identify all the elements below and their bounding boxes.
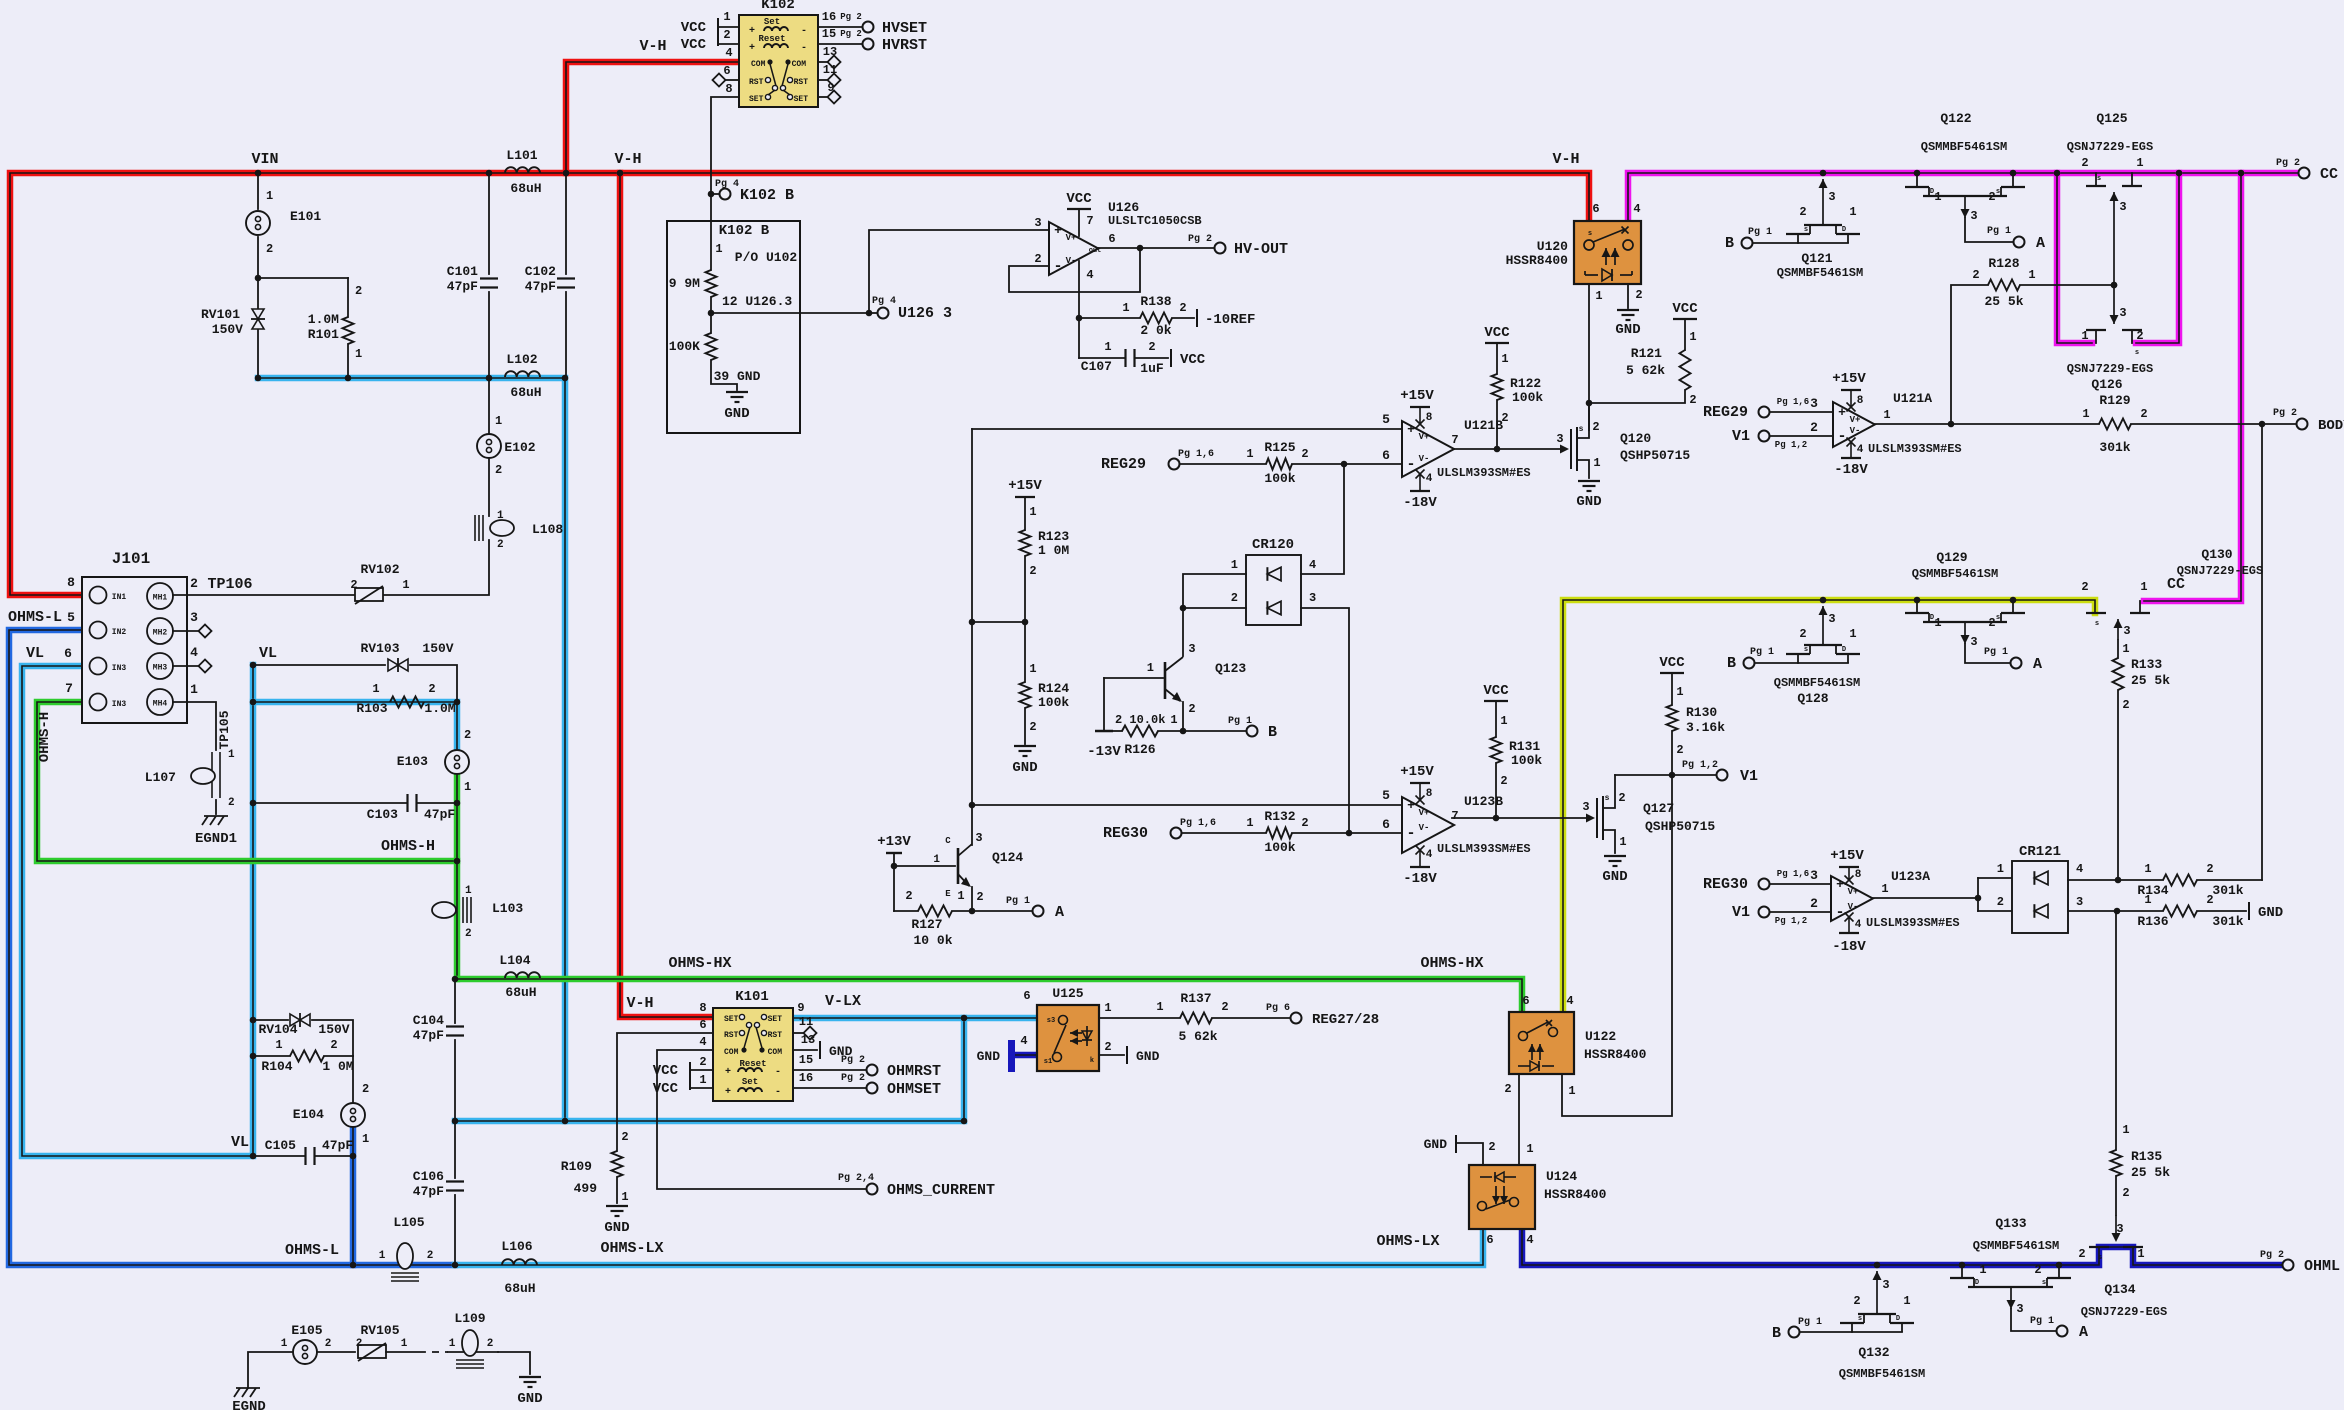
svg-text:-: - — [775, 1067, 781, 1078]
terminal OHML — [2260, 1250, 2340, 1275]
U102 pin12 wire to U126_3 tap — [708, 230, 1049, 322]
svg-text:2: 2 — [362, 1082, 369, 1096]
svg-text:3: 3 — [1810, 868, 1818, 883]
U121B output wire to Q120 gate — [1453, 445, 1569, 454]
svg-text:1: 1 — [2144, 862, 2151, 876]
junction dot V-LX — [562, 1015, 968, 1125]
svg-text:R135: R135 — [2131, 1149, 2162, 1164]
svg-text:2: 2 — [976, 890, 983, 904]
svg-text:REG30: REG30 — [1703, 876, 1748, 893]
svg-text:A: A — [2033, 656, 2042, 673]
svg-text:E102: E102 — [504, 440, 535, 455]
U126 pin4 wire down — [1076, 261, 1094, 358]
svg-text:2: 2 — [1500, 774, 1507, 788]
svg-text:REG29: REG29 — [1101, 456, 1146, 473]
svg-text:RV101: RV101 — [201, 307, 240, 322]
svg-text:Pg 1: Pg 1 — [1228, 716, 1252, 727]
svg-text:1: 1 — [1156, 1000, 1163, 1014]
svg-text:1: 1 — [497, 510, 504, 522]
svg-text:Q133: Q133 — [1995, 1216, 2026, 1231]
svg-text:SET: SET — [794, 95, 809, 104]
svg-text:C107: C107 — [1081, 359, 1112, 374]
svg-text:2: 2 — [356, 1338, 363, 1350]
Q120 source ground — [1576, 481, 1601, 510]
svg-text:COM: COM — [724, 1048, 739, 1057]
svg-text:4: 4 — [1020, 1034, 1027, 1048]
svg-text:1: 1 — [1526, 1142, 1533, 1156]
svg-text:5: 5 — [1382, 788, 1390, 803]
svg-text:Pg 1: Pg 1 — [1748, 227, 1772, 238]
U126 output to HV-OUT — [1098, 232, 1288, 258]
svg-text:VCC: VCC — [681, 37, 707, 53]
svg-text:-10REF: -10REF — [1205, 312, 1255, 328]
svg-text:VIN: VIN — [251, 151, 278, 168]
svg-text:1: 1 — [1501, 352, 1508, 366]
svg-text:6: 6 — [1382, 448, 1390, 463]
JFET Q132 QSMMBF5461SM — [1839, 1262, 1925, 1381]
svg-text:1: 1 — [1997, 862, 2004, 876]
wire V1 node — [1615, 760, 1758, 785]
svg-text:Pg 4: Pg 4 — [715, 179, 739, 190]
svg-text:U121B: U121B — [1464, 418, 1503, 433]
svg-text:SET: SET — [724, 1015, 739, 1024]
svg-text:301k: 301k — [2212, 883, 2243, 898]
svg-text:1.0M: 1.0M — [424, 701, 455, 716]
diode pack CR121 — [1997, 844, 2083, 933]
svg-text:1 0M: 1 0M — [322, 1059, 353, 1074]
svg-text:R132: R132 — [1264, 809, 1295, 824]
transistor Q124 — [933, 831, 1023, 911]
svg-text:B: B — [1727, 655, 1736, 672]
op-amp U121B ULSLM393SM#ES — [972, 388, 1531, 511]
svg-text:3: 3 — [1970, 209, 1977, 223]
K101 pin4 wire to OHMS_CURRENT — [657, 1050, 995, 1199]
svg-text:2: 2 — [1104, 1040, 1111, 1054]
svg-text:47pF: 47pF — [322, 1138, 353, 1153]
svg-text:68uH: 68uH — [504, 1281, 535, 1296]
wire BODY junction down to R134 — [2261, 424, 2263, 880]
svg-text:TP106: TP106 — [207, 576, 252, 593]
svg-text:100k: 100k — [1512, 390, 1543, 405]
svg-text:+15V: +15V — [1400, 764, 1434, 780]
svg-text:2: 2 — [1635, 288, 1642, 302]
svg-text:VL: VL — [26, 645, 44, 662]
svg-text:4: 4 — [1086, 268, 1093, 282]
svg-text:D: D — [1896, 1315, 1900, 1323]
JFET Q134 QSNJ7229-EGS — [2078, 1215, 2167, 1319]
svg-text:1: 1 — [2081, 329, 2088, 343]
capacitor C104 47pF — [413, 976, 464, 1125]
svg-text:GND: GND — [1424, 1137, 1448, 1152]
svg-text:Pg 6: Pg 6 — [1266, 1003, 1290, 1014]
resistor 9.9M inside U102 — [669, 221, 717, 333]
svg-text:Pg 1: Pg 1 — [2030, 1316, 2054, 1327]
MOSFET Q127 QSHP50715 — [1582, 775, 1715, 853]
svg-text:Pg 2: Pg 2 — [841, 1073, 865, 1084]
svg-text:GND: GND — [977, 1049, 1001, 1064]
U122 pin2 to U124 pin1 wire — [1504, 1074, 1533, 1165]
svg-text:3: 3 — [1970, 635, 1977, 649]
wire VIN / V-H net (red) — [10, 38, 1589, 1017]
svg-text:1: 1 — [1231, 558, 1238, 572]
svg-text:D: D — [1842, 226, 1846, 234]
svg-text:V-: V- — [1848, 902, 1859, 912]
svg-text:1: 1 — [2137, 1247, 2144, 1261]
svg-text:A: A — [2079, 1324, 2088, 1341]
svg-text:1: 1 — [228, 749, 235, 761]
svg-text:ULSLM393SM#ES: ULSLM393SM#ES — [1868, 442, 1962, 456]
svg-text:MH1: MH1 — [153, 594, 168, 603]
capacitor C107 1uF to VCC — [1079, 340, 1206, 376]
svg-text:2 0k: 2 0k — [1140, 323, 1171, 338]
svg-text:U124: U124 — [1546, 1169, 1577, 1184]
Q124 base wire with +13V — [877, 834, 955, 911]
svg-text:4: 4 — [2076, 862, 2083, 876]
svg-text:3: 3 — [2116, 1222, 2123, 1236]
svg-text:L106: L106 — [501, 1239, 532, 1254]
svg-text:RST: RST — [794, 78, 809, 87]
wire OHMS-L net (blue) — [8, 609, 455, 1265]
svg-text:1: 1 — [1883, 408, 1890, 422]
svg-text:1: 1 — [1676, 685, 1683, 699]
svg-text:VCC: VCC — [1672, 301, 1698, 317]
svg-text:3: 3 — [1034, 216, 1041, 230]
svg-text:RST: RST — [768, 1031, 783, 1040]
svg-text:-: - — [775, 1087, 781, 1098]
svg-text:VL: VL — [259, 645, 277, 662]
svg-text:K102 B: K102 B — [740, 187, 794, 204]
svg-text:2: 2 — [1504, 1082, 1511, 1096]
wire R123/R124 junction to rail — [972, 619, 1028, 626]
K101 pin13 GND — [793, 1033, 853, 1059]
U126 VCC pin7 — [1066, 191, 1093, 236]
resistor R124 100k — [1020, 622, 1070, 744]
svg-text:D: D — [1975, 1279, 1979, 1287]
K101 left pin labels — [699, 1001, 706, 1087]
svg-text:-: - — [1053, 258, 1062, 275]
svg-text:12 U126.3: 12 U126.3 — [722, 294, 792, 309]
ferrite bead L109 — [448, 1311, 530, 1374]
svg-text:6: 6 — [1108, 232, 1115, 246]
svg-text:1uF: 1uF — [1140, 361, 1164, 376]
svg-text:150V: 150V — [212, 322, 243, 337]
svg-text:Pg 2: Pg 2 — [2276, 158, 2300, 169]
svg-text:s: s — [1605, 794, 1610, 803]
U120 pin1 wire to Q120 drain — [1586, 284, 1603, 430]
JFET Q129 QSMMBF5461SM — [1905, 550, 2025, 663]
svg-text:ULSLTC1050CSB: ULSLTC1050CSB — [1108, 214, 1202, 228]
resistor R131 100k with VCC — [1483, 683, 1542, 818]
svg-text:GND: GND — [1136, 1049, 1160, 1064]
CR120 pin1/pin2 wires — [1180, 574, 1246, 611]
svg-text:-13V: -13V — [1087, 744, 1121, 760]
U120 pin2 ground — [1615, 284, 1642, 338]
svg-text:2: 2 — [2206, 893, 2213, 907]
svg-text:Pg 1: Pg 1 — [1750, 647, 1774, 658]
svg-text:HV-OUT: HV-OUT — [1234, 241, 1288, 258]
svg-text:5 62k: 5 62k — [1178, 1029, 1217, 1044]
terminal CC — [2276, 158, 2338, 183]
svg-text:TP105: TP105 — [217, 710, 232, 749]
svg-text:1: 1 — [1849, 205, 1856, 219]
svg-text:3: 3 — [2119, 200, 2126, 214]
capacitor C103 47pF — [250, 794, 461, 864]
svg-text:V1: V1 — [1740, 768, 1758, 785]
svg-text:HSSR8400: HSSR8400 — [1584, 1047, 1647, 1062]
svg-text:1: 1 — [1979, 1263, 1986, 1277]
svg-text:2: 2 — [699, 1055, 706, 1069]
svg-text:-18V: -18V — [1834, 462, 1868, 478]
svg-text:6: 6 — [699, 1018, 706, 1032]
resistor R101 1.0M — [308, 278, 362, 378]
svg-text:2: 2 — [228, 797, 235, 809]
svg-text:s: s — [1804, 646, 1808, 654]
svg-text:U126: U126 — [1108, 200, 1139, 215]
svg-text:7: 7 — [65, 681, 73, 696]
svg-text:15: 15 — [822, 27, 836, 41]
svg-text:s: s — [1996, 614, 2000, 622]
svg-text:8: 8 — [1857, 395, 1864, 407]
inductor L106 68uH — [501, 1239, 537, 1296]
svg-text:1: 1 — [1104, 1001, 1111, 1015]
svg-text:OHMS-HX: OHMS-HX — [668, 955, 731, 972]
JFET Q126 QSNJ7229-EGS — [2067, 329, 2153, 392]
svg-text:V-LX: V-LX — [825, 993, 861, 1010]
svg-text:1: 1 — [1619, 835, 1626, 849]
svg-text:1: 1 — [1934, 616, 1941, 630]
svg-text:s: s — [2135, 349, 2139, 357]
svg-text:-18V: -18V — [1403, 495, 1437, 511]
CR120 pin4 wire to R125 junction — [1301, 464, 1344, 574]
svg-text:4: 4 — [1855, 919, 1862, 931]
svg-text:3: 3 — [2016, 1302, 2023, 1316]
op-amp U123A ULSLM393SM#ES — [1703, 848, 1960, 955]
svg-text:K102 B: K102 B — [719, 223, 770, 239]
diamond MH3 pin4 — [173, 645, 212, 673]
svg-text:1: 1 — [1147, 661, 1154, 675]
svg-text:Q129: Q129 — [1936, 550, 1967, 565]
svg-text:GND: GND — [1576, 494, 1601, 510]
svg-text:1: 1 — [266, 189, 273, 203]
svg-text:2: 2 — [325, 1338, 332, 1350]
svg-text:7: 7 — [1086, 214, 1093, 228]
svg-text:L104: L104 — [499, 953, 530, 968]
svg-text:U125: U125 — [1052, 986, 1083, 1001]
wire OHMS-H net (green) — [37, 702, 457, 979]
op-amp U121A ULSLM393SM#ES — [1703, 371, 1962, 478]
svg-text:Pg 2: Pg 2 — [1188, 234, 1212, 245]
svg-text:C105: C105 — [265, 1138, 296, 1153]
svg-text:RST: RST — [749, 78, 764, 87]
svg-text:RST: RST — [724, 1031, 739, 1040]
svg-text:2: 2 — [428, 682, 435, 696]
svg-text:D: D — [1842, 646, 1846, 654]
svg-text:3: 3 — [1188, 642, 1195, 656]
U126 feedback loop pin2 — [1009, 248, 1140, 292]
K101 pin16 OHMSET — [793, 1071, 941, 1098]
svg-text:1: 1 — [2122, 642, 2129, 656]
inductor L104 68uH — [499, 953, 540, 1000]
svg-text:Pg 1,6: Pg 1,6 — [1777, 869, 1809, 879]
svg-text:5: 5 — [1382, 412, 1390, 427]
wire OHMS-LX net (cyan) — [455, 1229, 1483, 1265]
svg-text:R130: R130 — [1686, 705, 1717, 720]
svg-text:100k: 100k — [1511, 753, 1542, 768]
wire R130 node down to U122 pin1 — [1562, 775, 1672, 1116]
svg-text:2: 2 — [2078, 1247, 2085, 1261]
svg-text:V-H: V-H — [614, 151, 641, 168]
svg-text:1: 1 — [715, 242, 722, 256]
svg-text:QSNJ7229-EGS: QSNJ7229-EGS — [2067, 140, 2153, 154]
svg-text:1.0M: 1.0M — [308, 312, 339, 327]
U124 GND bracket — [1424, 1135, 1496, 1165]
svg-text:U121A: U121A — [1893, 391, 1932, 406]
svg-text:1: 1 — [379, 1250, 386, 1262]
svg-text:R103: R103 — [356, 701, 387, 716]
svg-text:IN1: IN1 — [112, 593, 127, 602]
svg-text:2: 2 — [1188, 702, 1195, 716]
terminal A from Q129 — [1984, 647, 2042, 673]
svg-text:3: 3 — [1882, 1278, 1889, 1292]
svg-text:V-: V- — [1066, 256, 1077, 266]
svg-text:A: A — [1055, 904, 1064, 921]
svg-text:11: 11 — [799, 1015, 813, 1029]
svg-text:COM: COM — [792, 60, 807, 69]
CR120 pin3 wire to R132 junction — [1301, 608, 1349, 833]
svg-text:HSSR8400: HSSR8400 — [1544, 1187, 1607, 1202]
resistor R103 1.0M — [250, 682, 456, 716]
svg-text:OHMRST: OHMRST — [887, 1063, 941, 1080]
svg-text:1: 1 — [464, 780, 471, 794]
svg-text:8: 8 — [725, 82, 732, 96]
junction dots on VIN line — [255, 170, 624, 382]
spark gap E103 — [397, 728, 471, 794]
svg-text:VCC: VCC — [1483, 683, 1509, 699]
svg-text:1: 1 — [401, 1338, 408, 1350]
svg-text:R136: R136 — [2137, 914, 2168, 929]
svg-text:1: 1 — [1122, 301, 1129, 315]
terminal B to Q132 — [1772, 1317, 1852, 1342]
wire left rail x=972 — [969, 429, 976, 845]
U123B output to Q127 gate — [1452, 814, 1595, 823]
svg-text:+: + — [1838, 405, 1846, 420]
svg-text:V+: V+ — [1848, 887, 1859, 897]
svg-text:VCC: VCC — [1066, 191, 1092, 207]
svg-text:150V: 150V — [422, 641, 453, 656]
svg-text:HVSET: HVSET — [882, 20, 927, 37]
svg-text:2: 2 — [1301, 816, 1308, 830]
svg-text:1: 1 — [1903, 1294, 1910, 1308]
svg-text:VCC: VCC — [1659, 655, 1685, 671]
svg-text:2: 2 — [2136, 329, 2143, 343]
svg-text:R125: R125 — [1264, 440, 1295, 455]
svg-text:1: 1 — [1170, 713, 1177, 727]
svg-text:GND: GND — [604, 1220, 629, 1236]
K102 pin11 diamond — [818, 63, 841, 87]
svg-text:16: 16 — [822, 10, 836, 24]
svg-text:2: 2 — [1972, 268, 1979, 282]
resistor R128 25.5k — [1951, 256, 2117, 424]
svg-text:-18V: -18V — [1403, 871, 1437, 887]
svg-text:R137: R137 — [1180, 991, 1211, 1006]
svg-text:100k: 100k — [1264, 471, 1295, 486]
svg-text:K102: K102 — [761, 0, 795, 13]
capacitor C101 47pF — [447, 173, 498, 378]
svg-text:6: 6 — [1023, 989, 1030, 1003]
ferrite bead L105 — [350, 1215, 434, 1281]
svg-text:1: 1 — [362, 1132, 369, 1146]
MOSFET Q120 QSHP50715 — [1556, 403, 1690, 478]
svg-text:2: 2 — [1988, 190, 1995, 204]
svg-text:-: - — [801, 43, 807, 54]
terminal A (Q124 emitter) — [1006, 896, 1064, 921]
svg-text:25 5k: 25 5k — [2131, 1165, 2170, 1180]
svg-text:1: 1 — [1568, 1084, 1575, 1098]
svg-text:4: 4 — [1566, 994, 1573, 1008]
svg-text:3: 3 — [2123, 624, 2130, 638]
svg-text:2: 2 — [1179, 301, 1186, 315]
svg-text:GND: GND — [1602, 869, 1627, 885]
svg-text:4: 4 — [1857, 444, 1864, 456]
svg-text:3: 3 — [1556, 432, 1563, 446]
svg-text:Q125: Q125 — [2096, 111, 2127, 126]
spark gap E101 — [246, 173, 321, 278]
svg-text:1: 1 — [449, 1338, 456, 1350]
svg-text:MH2: MH2 — [153, 629, 168, 638]
U121A output wire / R129 row to BODY — [1875, 393, 2344, 455]
wire VL net (cyan) — [22, 645, 457, 1156]
svg-text:REG29: REG29 — [1703, 404, 1748, 421]
svg-text:L109: L109 — [454, 1311, 485, 1326]
svg-text:+: + — [749, 26, 755, 37]
capacitor C102 47pF — [525, 173, 575, 378]
U125 pin2 ground — [1099, 1040, 1160, 1064]
svg-text:2: 2 — [621, 1130, 628, 1144]
svg-text:SET: SET — [768, 1015, 783, 1024]
svg-text:2: 2 — [1148, 340, 1155, 354]
svg-text:8: 8 — [1426, 788, 1433, 800]
svg-text:2: 2 — [1988, 616, 1995, 630]
svg-text:2: 2 — [465, 928, 472, 940]
svg-text:L108: L108 — [532, 522, 563, 537]
svg-text:MH3: MH3 — [153, 664, 168, 673]
svg-text:Pg 2: Pg 2 — [2273, 408, 2297, 419]
svg-text:6: 6 — [1382, 817, 1390, 832]
svg-text:QSMMBF5461SM: QSMMBF5461SM — [1973, 1239, 2059, 1253]
svg-text:4: 4 — [1426, 849, 1433, 861]
svg-text:1: 1 — [1689, 330, 1696, 344]
ground inside U102 — [724, 392, 749, 422]
svg-text:47pF: 47pF — [413, 1184, 444, 1199]
svg-text:OHMS-H: OHMS-H — [381, 838, 435, 855]
svg-text:Pg 1: Pg 1 — [1984, 647, 2008, 658]
svg-text:OHMS-HX: OHMS-HX — [1420, 955, 1483, 972]
svg-text:6: 6 — [1522, 994, 1529, 1008]
svg-text:2: 2 — [1689, 393, 1696, 407]
svg-text:Pg 2: Pg 2 — [841, 1055, 865, 1066]
svg-text:+15V: +15V — [1400, 388, 1434, 404]
svg-text:U126 3: U126 3 — [898, 305, 952, 322]
svg-text:V+: V+ — [1419, 808, 1430, 818]
svg-text:Q124: Q124 — [992, 850, 1023, 865]
svg-text:1: 1 — [621, 1190, 628, 1204]
svg-text:-: - — [801, 26, 807, 37]
svg-text:QSMMBF5461SM: QSMMBF5461SM — [1774, 676, 1860, 690]
wire E101 to RV101/R101 — [255, 275, 348, 282]
svg-text:2: 2 — [1618, 791, 1625, 805]
svg-text:1: 1 — [723, 10, 730, 24]
svg-text:3: 3 — [1309, 591, 1316, 605]
